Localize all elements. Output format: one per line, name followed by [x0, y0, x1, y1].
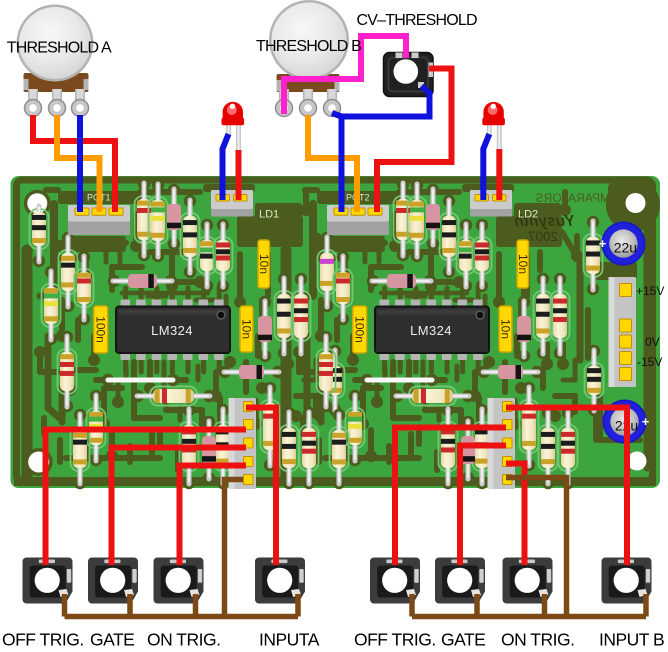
wire CONa pad3 to GATE jack (red): [112, 448, 247, 566]
svg-text:+15V: +15V: [636, 284, 664, 298]
svg-text:10n: 10n: [240, 319, 254, 339]
resistor R21a: [132, 387, 215, 406]
wire jumper Ja: [102, 374, 179, 386]
mounting hole H3: [25, 448, 53, 476]
wire CONa pad1 to INPUT A jack (red): [246, 408, 276, 566]
connector POWER (+15V/0V/-15V): [609, 277, 637, 387]
capacitor C3a (10n): [240, 306, 254, 352]
svg-text:22u: 22u: [614, 240, 637, 256]
svg-text:INPUT B: INPUT B: [599, 630, 664, 650]
wire trimmer to POT2 pad3 (red): [377, 69, 452, 213]
resistor R1a: [30, 206, 49, 267]
wire lug stub (brown): [542, 594, 548, 617]
mounting hole H1: [24, 190, 51, 217]
capacitor C6 (22u electrolytic): [603, 400, 650, 444]
svg-text:LM324: LM324: [410, 323, 452, 338]
jack ON TRIG. A: [154, 558, 204, 604]
potentiometer THRESHOLD B (P2): [269, 0, 349, 117]
wire pot B lug3 branch to POT2 (blue): [339, 117, 345, 213]
capacitor C3b (10n): [499, 306, 513, 352]
resistor R12b: [317, 331, 336, 412]
mounting hole H2: [622, 190, 649, 217]
svg-text:ON TRIG.: ON TRIG.: [501, 630, 574, 650]
resistor R21b: [391, 387, 474, 406]
capacitor C2a (10n): [257, 240, 271, 288]
diode D5a: [202, 416, 216, 484]
connector POT1: [68, 205, 130, 235]
wire CONb pad1 to INPUT B jack (red): [506, 408, 627, 566]
resistor R9a: [214, 219, 233, 292]
resistor R11a: [292, 273, 311, 359]
svg-text:LD2: LD2: [518, 209, 538, 221]
wire CONa ground to jack lugs (brown): [225, 480, 244, 617]
diode D4a: [219, 365, 284, 379]
jack INPUT A: [255, 558, 305, 604]
resistor R14a: [71, 409, 90, 489]
resistor R6a: [149, 179, 168, 262]
wire CONa pad2 to OFF TRIG jack (red): [46, 430, 247, 566]
resistor R10b: [534, 273, 553, 359]
resistor R8b: [457, 219, 476, 292]
op-amp U1b (LM324): [375, 300, 489, 361]
wire pot A lug3 to POT1 pad1 (blue): [77, 115, 83, 212]
wire lug stub (brown): [193, 594, 199, 617]
resistor R7a: [181, 195, 200, 278]
svg-text:LD1: LD1: [259, 209, 279, 221]
resistor R10a: [275, 273, 294, 359]
PCB traces shared right: [524, 178, 660, 468]
connector LD2 header: [470, 190, 512, 217]
wire lug stub (brown): [643, 594, 649, 617]
svg-text:THRESHOLD A: THRESHOLD A: [7, 40, 112, 57]
svg-text:+: +: [642, 414, 650, 429]
capacitor C5 (22u electrolytic): [599, 222, 646, 266]
diode D1b: [426, 184, 440, 250]
resistor R13a: [87, 390, 106, 466]
resistor R16b: [473, 404, 492, 489]
resistor R20b: [585, 345, 604, 416]
resistor R20a: [326, 345, 345, 416]
LED LD1 (LED): [222, 102, 245, 152]
svg-text:ON TRIG.: ON TRIG.: [147, 630, 220, 650]
jack GATE B: [435, 558, 485, 604]
resistor R8a: [198, 219, 217, 292]
svg-text:2007: 2007: [528, 229, 558, 244]
resistor R4a: [42, 266, 61, 345]
wire lug stub (brown): [409, 594, 415, 617]
wire LED1 cathode (blue): [223, 134, 229, 200]
resistor R7b: [440, 195, 459, 278]
wire CONb pad3 to GATE jack (red): [460, 446, 506, 566]
svg-text:10n: 10n: [257, 254, 271, 274]
trimmer CV-THRESHOLD (P3): [384, 53, 434, 97]
diode D4b: [478, 365, 543, 379]
resistor R16a: [214, 404, 233, 489]
svg-text:OFF TRIG.: OFF TRIG.: [2, 630, 84, 650]
op-amp U1a (LM324): [116, 300, 230, 361]
capacitor C1b (100n): [353, 306, 367, 353]
capacitor C2b (10n): [516, 240, 530, 288]
connector LD1 header: [211, 190, 253, 217]
jack GATE A: [88, 558, 138, 604]
resistor R5b: [394, 178, 413, 261]
resistor R13b: [346, 390, 365, 466]
svg-text:OFF TRIG.: OFF TRIG.: [354, 630, 436, 650]
resistor R3a: [75, 251, 94, 325]
wire lug stub (brown): [474, 594, 480, 617]
PCB board: [11, 176, 661, 488]
PCB traces channel B: [286, 184, 583, 477]
wire CONb pad4 to ON TRIG jack (red): [506, 464, 525, 566]
wire LED2 anode (red): [496, 149, 502, 200]
svg-text:THRESHOLD B: THRESHOLD B: [256, 38, 361, 55]
wire ground bus B (brown): [412, 614, 646, 620]
svg-text:0V: 0V: [645, 335, 660, 349]
resistor R12a: [58, 331, 77, 412]
diode D2a: [258, 296, 272, 362]
wire jumper Jb: [361, 374, 438, 386]
jack OFF TRIG. A: [23, 558, 73, 604]
connector CONb: [488, 398, 516, 489]
mounting hole H4: [628, 452, 647, 471]
svg-text:CV–THRESHOLD: CV–THRESHOLD: [357, 12, 477, 29]
resistor R22: [584, 216, 603, 295]
wire pot B lug2 to POT2 pad2 (orange): [308, 115, 357, 212]
wire pot B lug3 to POT2 pad1 (blue): [332, 86, 430, 117]
svg-text:10n: 10n: [516, 254, 530, 274]
resistor R17b: [520, 382, 539, 471]
resistor R18a: [280, 407, 299, 489]
wire CONb pad2 to OFF TRIG jack (red): [395, 428, 506, 566]
connector POT2: [327, 205, 389, 235]
svg-text:10n: 10n: [499, 319, 513, 339]
wire pot A lug1 to POT1 pad3 (red): [33, 115, 115, 212]
wire lug stub (brown): [62, 594, 68, 617]
diode D1a: [167, 184, 181, 250]
capacitor C1a (100n): [94, 306, 108, 353]
resistor R19a: [300, 407, 319, 489]
wire LED2 cathode (blue): [483, 134, 489, 200]
wire LED1 anode (red): [236, 150, 242, 200]
resistor R15a: [180, 404, 199, 489]
wire pot A lug2 to POT1 pad2 (orange): [57, 115, 100, 212]
resistor R5a: [135, 178, 154, 261]
svg-text:INPUTA: INPUTA: [259, 630, 320, 650]
resistor R2b: [318, 232, 337, 312]
wire pot B lug1 to trimmer (magenta): [284, 36, 406, 114]
svg-text:100n: 100n: [94, 316, 108, 343]
jack INPUT B: [602, 558, 652, 604]
svg-text:GATE: GATE: [90, 630, 134, 650]
resistor R19b: [559, 407, 578, 489]
resistor R9b: [473, 219, 492, 292]
resistor R11b: [551, 273, 570, 359]
svg-text:100n: 100n: [353, 316, 367, 343]
connector CONa: [229, 398, 257, 489]
wire CONa pad4 to ON TRIG jack (red): [180, 466, 247, 566]
PCB traces channel A: [27, 184, 324, 477]
wire lug stub (brown): [127, 594, 133, 617]
resistor R17a: [261, 382, 280, 471]
svg-text:GATE: GATE: [441, 630, 485, 650]
diode D3b: [367, 274, 436, 288]
diode D3a: [108, 274, 177, 288]
resistor R6b: [408, 179, 427, 262]
resistor R15b: [439, 404, 458, 489]
LED LD2 (LED): [482, 102, 505, 152]
jack ON TRIG. B: [503, 558, 553, 604]
jack OFF TRIG. B: [370, 558, 420, 604]
wire lug stub (brown): [295, 594, 301, 617]
svg-text:-15V: -15V: [637, 355, 662, 369]
potentiometer THRESHOLD A (P1): [17, 5, 94, 117]
resistor R3b: [334, 251, 353, 325]
wire ground bus A (brown): [65, 614, 299, 620]
svg-text:LM324: LM324: [151, 323, 193, 338]
diode D5b: [461, 416, 475, 484]
wire CONb ground to jack lugs (brown): [506, 478, 567, 617]
resistor R18b: [539, 407, 558, 489]
resistor R2a: [59, 232, 78, 312]
diode D2b: [517, 296, 531, 362]
resistor R14b: [330, 409, 349, 489]
svg-text:+: +: [599, 236, 607, 251]
